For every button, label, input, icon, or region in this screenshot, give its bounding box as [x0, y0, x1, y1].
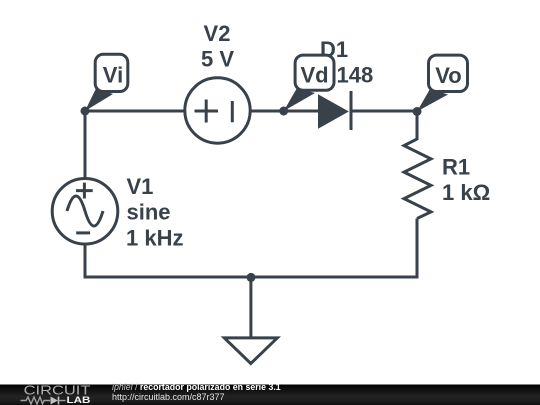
- wire left vertical upper: node Vi to V1: [84, 110, 87, 180]
- svg-text:148: 148: [337, 63, 374, 88]
- wire: V2 to diode anode: [250, 110, 319, 113]
- footer logo resistor-diode glyph: [21, 397, 66, 405]
- junction ground node: [247, 273, 256, 282]
- junction node Vo: [413, 107, 422, 116]
- resistor R1: [404, 139, 431, 219]
- footer logo LAB: [67, 395, 91, 405]
- wire bottom rail: [84, 276, 419, 279]
- value 1N4148: [337, 63, 374, 88]
- flag Vd: [284, 55, 334, 111]
- wire right vertical upper: node Vo to R1: [416, 111, 419, 140]
- diode D1: [318, 91, 351, 130]
- label V2: [204, 21, 231, 46]
- svg-text:LAB: LAB: [67, 395, 91, 405]
- svg-text:1 kHz: 1 kHz: [126, 225, 183, 250]
- value 5 V: [201, 47, 234, 72]
- svg-text:http://circuitlab.com/c87r377: http://circuitlab.com/c87r377: [112, 392, 225, 402]
- wire right vertical lower: R1 to bottom rail: [416, 219, 419, 278]
- ground: [224, 338, 277, 364]
- svg-text:V1: V1: [127, 174, 154, 199]
- flag Vi: [85, 54, 128, 111]
- wire: diode cathode to node Vo: [351, 110, 419, 113]
- svg-text:V2: V2: [204, 21, 231, 46]
- label R1: [442, 155, 470, 180]
- footer bar: [0, 385, 540, 405]
- svg-text:Vd: Vd: [300, 63, 328, 88]
- svg-text:Vi: Vi: [103, 63, 123, 88]
- voltage source V2 circle: [185, 78, 250, 143]
- label V1: [127, 174, 154, 199]
- footer logo CIRCUIT: [24, 382, 91, 397]
- svg-text:1 kΩ: 1 kΩ: [442, 180, 490, 205]
- wire ground stem: [249, 277, 252, 338]
- value sine: [127, 200, 171, 225]
- svg-text:sine: sine: [127, 200, 171, 225]
- svg-text:iphiel / recortador polarizado: iphiel / recortador polarizado en serie …: [112, 382, 281, 392]
- wire left vertical lower: V1 to bottom rail: [84, 244, 87, 279]
- value 1 kOhm: [442, 180, 490, 205]
- sine source V1 circle: [52, 179, 118, 245]
- svg-text:5 V: 5 V: [201, 47, 234, 72]
- svg-text:R1: R1: [442, 155, 470, 180]
- svg-text:Vo: Vo: [435, 63, 461, 88]
- footer title line: [112, 382, 281, 392]
- flag Vo: [417, 55, 468, 111]
- value 1 kHz: [126, 225, 183, 250]
- junction node Vi: [81, 107, 90, 116]
- footer url line: [112, 392, 225, 402]
- label D1: [320, 37, 348, 62]
- junction node Vd: [279, 107, 288, 116]
- wire top-left: node Vi to V2: [85, 110, 186, 113]
